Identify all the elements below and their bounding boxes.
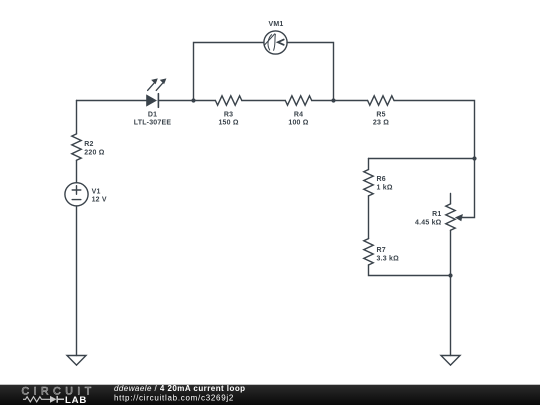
potentiometer R1: [415, 194, 463, 276]
resistor R5: [368, 96, 394, 127]
ground (left): [67, 356, 86, 366]
wire: left vertical from top corner down to R2: [76, 101, 78, 134]
svg-text:23 Ω: 23 Ω: [373, 120, 389, 127]
wire: LED cathode to R3 through node A: [158, 100, 215, 102]
svg-text:http://circuitlab.com/c3269j2: http://circuitlab.com/c3269j2: [114, 394, 234, 403]
svg-text:R3: R3: [224, 112, 233, 119]
svg-text:3.3 kΩ: 3.3 kΩ: [377, 255, 400, 262]
node C junction dot: [472, 156, 476, 160]
voltmeter VM1: [264, 21, 287, 54]
svg-text:100 Ω: 100 Ω: [288, 120, 308, 127]
resistor R3: [215, 96, 241, 127]
svg-text:12 V: 12 V: [92, 196, 107, 203]
wire: R6 bottom to R7 top: [368, 196, 370, 239]
svg-text:R6: R6: [377, 176, 386, 183]
wire: VM1 branch right (VM1 to node B down): [287, 43, 334, 101]
wire: top-left horizontal from V1 branch to LED anode: [77, 100, 147, 102]
wire: R5 to right corner down to node C: [394, 101, 475, 159]
wire: R3 to R4: [242, 100, 285, 102]
wire: R6 top stub: [368, 159, 370, 170]
resistor R4: [285, 96, 311, 127]
resistor R7: [364, 239, 399, 265]
node B junction dot: [331, 98, 335, 102]
svg-text:ddewaele / 4 20mA current loop: ddewaele / 4 20mA current loop: [114, 384, 246, 393]
svg-text:LAB: LAB: [65, 395, 87, 405]
svg-text:V1: V1: [92, 188, 101, 195]
svg-text:220 Ω: 220 Ω: [84, 150, 104, 157]
svg-text:D1: D1: [148, 112, 157, 119]
wire: VM1 branch left riser (node A up and right to VM1): [194, 43, 264, 101]
svg-text:R5: R5: [376, 112, 385, 119]
svg-text:4.45 kΩ: 4.45 kΩ: [415, 219, 442, 226]
wire: node D down to right ground: [450, 276, 452, 356]
svg-text:R4: R4: [294, 112, 303, 119]
svg-text:R2: R2: [84, 141, 93, 148]
svg-text:R7: R7: [377, 247, 386, 254]
footer bar: [0, 384, 540, 385]
node D junction dot: [448, 273, 452, 277]
wire: V1 bottom to left ground: [76, 206, 78, 356]
svg-text:LTL-307EE: LTL-307EE: [134, 120, 172, 127]
resistor R2: [72, 134, 105, 160]
node A junction dot: [191, 98, 195, 102]
wire: node C left to R6 top: [369, 158, 475, 160]
wire: R2 bottom to V1 top: [76, 160, 78, 182]
svg-text:VM1: VM1: [269, 21, 284, 28]
ground (right): [441, 356, 460, 366]
wire: R7 bottom to node D: [369, 265, 451, 276]
svg-text:1 kΩ: 1 kΩ: [377, 184, 393, 191]
svg-text:150 Ω: 150 Ω: [218, 120, 238, 127]
wire: R4 to R5 through node B: [312, 100, 368, 102]
CircuitLab logo: resistor zigzag: [23, 397, 50, 402]
CircuitLab logo: diode symbol: [50, 396, 57, 403]
wire: node C down to R1 wiper: [462, 159, 475, 218]
LED D1: [134, 78, 172, 126]
voltage source V1: [65, 183, 107, 206]
resistor R6: [364, 170, 393, 196]
svg-text:R1: R1: [432, 211, 441, 218]
